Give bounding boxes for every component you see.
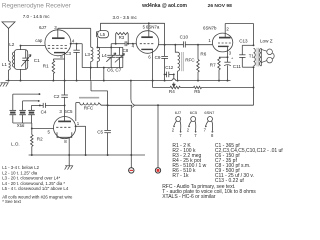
tube U2 plate xyxy=(58,117,71,122)
wire B plus column xyxy=(253,67,255,105)
label pin 6 of U3 xyxy=(148,55,151,60)
resistor R1 xyxy=(52,59,55,74)
heater symbol 6J7 xyxy=(172,110,182,138)
label R2 xyxy=(37,137,43,142)
label L5 xyxy=(100,32,105,37)
node rail descent top xyxy=(103,67,105,69)
svg-text:6C5: 6C5 xyxy=(64,109,73,114)
inductor RFC2 core xyxy=(182,52,184,71)
label Low Z xyxy=(260,38,273,43)
svg-text:R1: R1 xyxy=(43,64,49,69)
svg-text:R3: R3 xyxy=(119,35,125,40)
wire tank to RFC jog xyxy=(90,68,107,106)
node L3 bottom xyxy=(90,67,92,69)
resistor R2 xyxy=(31,135,34,155)
label C13 xyxy=(239,38,248,43)
label pin 3 of U4 xyxy=(229,51,232,56)
tube U2 6C5 envelope xyxy=(54,117,76,139)
wire R5 to B plus xyxy=(202,87,254,89)
label C4 xyxy=(41,110,47,115)
capacitor C9 xyxy=(161,45,168,81)
node R1-bus xyxy=(52,80,54,82)
wire tank bottom stub xyxy=(20,69,22,80)
svg-text:R2: R2 xyxy=(37,137,43,142)
label C10 xyxy=(180,34,189,39)
wire between R4 R5 xyxy=(180,87,193,89)
svg-text:7.0 - 14.5 mc: 7.0 - 14.5 mc xyxy=(23,14,51,19)
tube U3 6SN7a envelope xyxy=(136,31,159,54)
node U3 cathode-bus xyxy=(152,80,154,82)
node U2 pin1 xyxy=(75,125,77,127)
label 6SN7b xyxy=(203,25,217,30)
node R6 top xyxy=(197,44,199,46)
node T1 bottom xyxy=(253,66,255,68)
inductor RFC2 xyxy=(175,45,179,81)
wire tank top rail xyxy=(97,47,123,67)
wire junction arrowhead xyxy=(132,103,134,107)
resistor R7 xyxy=(218,57,228,80)
terminal B plus xyxy=(155,168,160,173)
inductor RFC1 xyxy=(76,103,108,121)
svg-text:R4: R4 xyxy=(169,89,175,94)
wire bus hop xyxy=(172,79,176,81)
label L4 xyxy=(102,53,108,58)
inductor L1 xyxy=(9,61,11,81)
svg-text:RFC: RFC xyxy=(84,105,94,110)
svg-text:Xtal: Xtal xyxy=(17,123,25,128)
label R3 xyxy=(119,35,125,40)
capacitor C7 arrow xyxy=(115,54,125,63)
tube U2 cathode box xyxy=(57,132,72,137)
wire R4 wiper xyxy=(172,74,175,87)
label 6SN7a xyxy=(143,25,160,30)
svg-text:6SN7a: 6SN7a xyxy=(146,25,160,30)
wire osc bus xyxy=(29,154,145,156)
node R2-osc bus xyxy=(31,154,33,156)
svg-text:L2 - 10 t. 1.25" dia: L2 - 10 t. 1.25" dia xyxy=(2,170,38,175)
capacitor C3 xyxy=(73,44,79,81)
label C5 xyxy=(97,130,103,135)
tube U4 grid dashes xyxy=(218,42,231,44)
svg-text:6SN7: 6SN7 xyxy=(204,110,215,115)
capacitor C12 xyxy=(165,72,174,78)
resistor R4 xyxy=(170,86,180,88)
node U3 plate loop xyxy=(148,22,150,24)
wire rail to bus xyxy=(103,68,105,81)
inductor L3 xyxy=(91,47,93,67)
label L1 xyxy=(2,62,8,67)
node C11-bus xyxy=(227,80,229,82)
inductor L2 tank box xyxy=(14,50,27,70)
inductor L5 box xyxy=(98,31,109,38)
inductor L5 winding xyxy=(96,31,97,37)
tube U3 cathode xyxy=(141,49,153,53)
wire U3 cathode down xyxy=(152,53,154,88)
label cap xyxy=(35,38,43,43)
label R5 xyxy=(194,89,200,94)
node L5-L4 junction xyxy=(96,46,98,48)
svg-text:L3: L3 xyxy=(85,52,91,57)
svg-text:L.O.: L.O. xyxy=(11,142,20,147)
label pin 1 of U2 xyxy=(77,121,80,126)
node U3 pin4 xyxy=(132,43,134,45)
svg-text:C6, C7: C6, C7 xyxy=(107,67,122,72)
node antenna-bus xyxy=(8,80,10,82)
node C12 left xyxy=(164,73,166,75)
crystal X1 xyxy=(10,94,17,123)
crystal X3 xyxy=(28,105,35,123)
tube U1 plate xyxy=(52,30,65,38)
label C1 xyxy=(34,58,40,63)
resistor R6 xyxy=(197,45,200,81)
antenna xyxy=(2,22,15,61)
capacitor C13 xyxy=(239,45,253,67)
svg-text:C13: C13 xyxy=(239,38,248,43)
capacitor C4 xyxy=(40,103,65,108)
svg-text:R7: R7 xyxy=(210,63,216,68)
capacitor C1 arrow xyxy=(21,55,31,67)
tube U1 pin 3 stub xyxy=(57,28,59,30)
svg-text:C9: C9 xyxy=(155,55,161,60)
svg-text:XTALS - HC-6 or similar: XTALS - HC-6 or similar xyxy=(162,194,216,200)
wire U4 plate to T1 xyxy=(225,24,253,46)
label parts list xyxy=(162,143,283,200)
node RFC1 right xyxy=(107,104,109,106)
wire xtal common xyxy=(13,123,32,135)
label schematic title xyxy=(2,3,72,10)
wire B plus descent xyxy=(157,105,159,168)
label RFC2 xyxy=(185,58,195,63)
wire U2 cathode down xyxy=(68,137,70,155)
tube U1 6J7 envelope xyxy=(45,30,71,56)
capacitor C2 xyxy=(61,81,68,106)
label date xyxy=(208,3,232,9)
label L2 xyxy=(9,42,15,47)
node tank-grid junction xyxy=(20,45,22,47)
svg-text:C13 - 0.22 uf: C13 - 0.22 uf xyxy=(215,178,245,184)
label pin 3 of U2 xyxy=(59,109,62,114)
svg-text:L3 - 20 t. closewound over L4*: L3 - 20 t. closewound over L4* xyxy=(2,176,60,181)
transformer T1 secondary xyxy=(260,48,262,66)
svg-text:C12: C12 xyxy=(165,65,174,70)
tube U4 6SN7b envelope xyxy=(212,33,232,52)
wire R1 tap xyxy=(53,58,64,60)
label RFC1 xyxy=(84,105,94,110)
wire U1 plate to L3 xyxy=(58,28,91,47)
node pin1-bus xyxy=(85,154,87,156)
heater symbol 6C5 xyxy=(187,110,198,138)
wire osc line to arrow xyxy=(108,104,133,106)
label T1 xyxy=(249,53,255,58)
label 6C5 xyxy=(64,109,73,114)
wire tank bottom rail xyxy=(82,67,123,69)
label pin 4 of U1 xyxy=(72,38,75,43)
label IF range 3.0 - 3.5 mc xyxy=(113,15,138,20)
svg-text:R5: R5 xyxy=(194,89,200,94)
tube U3 grid dashes xyxy=(140,43,154,45)
node U1 pin4 xyxy=(70,43,72,45)
node C3-bus xyxy=(76,80,78,82)
capacitor C10 xyxy=(184,41,186,47)
label C6 C7 xyxy=(107,67,122,72)
svg-text:C2: C2 xyxy=(54,94,60,99)
label tuning range 7.0 - 14.5 mc xyxy=(23,14,51,19)
label L3 xyxy=(85,52,91,57)
node RFC2-bus xyxy=(177,80,179,82)
svg-text:C10: C10 xyxy=(180,34,189,39)
node rail descent bus xyxy=(103,80,105,82)
svg-text:6SN7b: 6SN7b xyxy=(203,25,217,30)
svg-text:Low Z: Low Z xyxy=(260,38,273,43)
label R7 xyxy=(210,63,216,68)
wire 6C5 grid column xyxy=(64,105,66,116)
node B minus osc bus xyxy=(130,154,132,156)
wire xtal select 3 xyxy=(32,104,40,106)
label C2 xyxy=(54,94,60,99)
transformer T1 core xyxy=(257,48,259,67)
node R6-bus xyxy=(197,80,199,82)
node grid rail tap xyxy=(110,46,112,48)
node RFC1-line junction xyxy=(107,104,109,106)
wire bus to rail arrow xyxy=(131,81,132,104)
capacitor C5 xyxy=(104,105,111,155)
node U2 cathode-bus xyxy=(68,154,70,156)
wire B minus column xyxy=(130,105,132,167)
node rail-drop xyxy=(157,104,159,106)
svg-text:* See text: * See text xyxy=(2,199,21,204)
wire lower rail xyxy=(134,104,253,106)
svg-text:R7 - 1k: R7 - 1k xyxy=(172,173,189,179)
svg-text:26 NOV 98: 26 NOV 98 xyxy=(208,3,232,9)
tube U3 plate xyxy=(141,31,153,37)
inductor RFC1 core xyxy=(79,97,99,99)
svg-text:L2: L2 xyxy=(9,42,15,47)
svg-text:6C5: 6C5 xyxy=(190,110,198,115)
wire L5 top loop xyxy=(100,23,164,30)
resistor R3 xyxy=(116,33,129,44)
svg-text:L4 - 20 t. closewound, 1.25" d: L4 - 20 t. closewound, 1.25" dia * xyxy=(2,181,65,186)
label R4 xyxy=(169,89,175,94)
node R3 right xyxy=(127,43,129,45)
node C2-C4 junction xyxy=(64,104,66,106)
svg-text:3.0 - 3.5 mc: 3.0 - 3.5 mc xyxy=(113,15,138,20)
svg-text:T1: T1 xyxy=(249,53,255,58)
node U4 cathode junction xyxy=(227,56,229,58)
tube U1 cathode xyxy=(54,52,65,54)
svg-text:L4: L4 xyxy=(102,53,108,58)
tube U2 grid dashes xyxy=(56,126,70,128)
wire xtal select 1 xyxy=(13,93,41,95)
node U1 cathode-bus xyxy=(64,80,66,82)
node tank-bus xyxy=(20,80,22,82)
label pin 1 of U4 xyxy=(208,38,211,43)
label C3 xyxy=(65,51,71,56)
phones jack xyxy=(261,49,274,63)
capacitor C1 plates xyxy=(22,50,29,70)
wire L5 bottom xyxy=(97,38,99,48)
label L.O. xyxy=(11,142,20,147)
label pin 4 of U3 xyxy=(132,43,135,48)
svg-text:cap: cap xyxy=(35,38,43,43)
label C11 xyxy=(233,64,242,69)
capacitor C11 xyxy=(224,57,231,80)
wire tank top stub xyxy=(20,46,22,50)
terminal B minus xyxy=(129,168,134,173)
capacitor C6 xyxy=(107,47,115,67)
wire detector grid xyxy=(111,44,136,48)
wire U4 plate stub xyxy=(224,24,226,34)
capacitor C7 xyxy=(116,47,124,67)
wire 6C5 grid xyxy=(32,128,54,130)
svg-text:R6: R6 xyxy=(200,52,206,57)
svg-text:C11: C11 xyxy=(233,64,242,69)
svg-text:C1: C1 xyxy=(34,58,40,63)
node C9-bus xyxy=(164,80,166,82)
svg-text:RFC: RFC xyxy=(185,58,195,63)
svg-text:L1: L1 xyxy=(2,62,8,67)
wire U1 cathode down xyxy=(64,53,66,81)
label pin 3 of U1 xyxy=(54,25,57,30)
node C3 tap xyxy=(76,43,78,45)
node C9 top xyxy=(164,44,166,46)
label coil winding list xyxy=(2,165,73,204)
label pin 8 of U2 xyxy=(64,139,67,144)
ground GND1 xyxy=(0,82,8,86)
node R7-bus xyxy=(218,80,220,82)
label Xtal xyxy=(17,123,25,128)
wire plate column xyxy=(164,23,166,44)
node RFC2 top xyxy=(174,44,176,46)
svg-text:C8: C8 xyxy=(123,48,129,53)
svg-text:C3: C3 xyxy=(65,51,71,56)
wire U2 pin1 out xyxy=(76,126,86,155)
label R6 xyxy=(200,52,206,57)
wire U1 pin4 xyxy=(71,44,83,68)
node C5-bus xyxy=(107,154,109,156)
node C4 left xyxy=(39,104,41,106)
capacitor C6 arrow xyxy=(106,53,116,62)
node bus-rail tap xyxy=(130,80,132,82)
label C11 plus xyxy=(231,56,234,60)
node R3 left xyxy=(115,43,117,45)
ground GND2 xyxy=(65,155,73,170)
label C12 xyxy=(165,65,174,70)
wire U3 plate out xyxy=(158,44,212,46)
svg-text:6J7: 6J7 xyxy=(39,25,47,30)
tube U4 plate xyxy=(219,33,231,37)
label pin 8 of U1 xyxy=(60,54,63,59)
transformer T1 primary xyxy=(254,48,256,66)
wire chassis bus xyxy=(6,80,231,82)
svg-text:L5: L5 xyxy=(100,32,105,37)
node T1 top xyxy=(253,44,255,46)
label C8 xyxy=(123,48,129,53)
svg-text:C4: C4 xyxy=(41,110,47,115)
wire U3 plate stub xyxy=(148,23,150,31)
svg-text:Regenerodyne Receiver: Regenerodyne Receiver xyxy=(2,3,72,10)
label C9 xyxy=(155,55,161,60)
resistor R5 xyxy=(194,86,202,88)
wire R1 bottom xyxy=(52,74,54,81)
node R5-column xyxy=(253,87,255,89)
wire xtal select 2 xyxy=(23,100,40,102)
svg-text:6J7: 6J7 xyxy=(175,110,182,115)
svg-text:L1 - 3-4 t. below L2: L1 - 3-4 t. below L2 xyxy=(2,165,39,170)
label pin 2 of U4 xyxy=(226,26,229,31)
svg-text:wd4nka @ aol.com: wd4nka @ aol.com xyxy=(141,3,187,9)
label author email xyxy=(141,3,187,9)
label R1 xyxy=(43,64,49,69)
capacitor C8 xyxy=(125,41,127,46)
node grid tap 6C5 xyxy=(31,128,33,130)
svg-text:C5: C5 xyxy=(97,130,103,135)
crystal X2 xyxy=(19,101,26,123)
wire cathode line xyxy=(153,87,171,89)
wire grid cap xyxy=(21,45,46,47)
inductor L4 xyxy=(97,47,99,67)
label 6J7 xyxy=(39,25,47,30)
heater symbol 6SN7 xyxy=(204,110,216,138)
tube U1 grid dashes xyxy=(48,46,67,49)
tube U4 cathode xyxy=(218,46,229,57)
node C12 right xyxy=(173,73,175,75)
inductor L2 winding xyxy=(12,52,14,67)
label pin 5 of U2 xyxy=(48,129,51,134)
svg-text:L5 - 4 t. closewound 1/2" abov: L5 - 4 t. closewound 1/2" above L4 xyxy=(2,186,69,191)
